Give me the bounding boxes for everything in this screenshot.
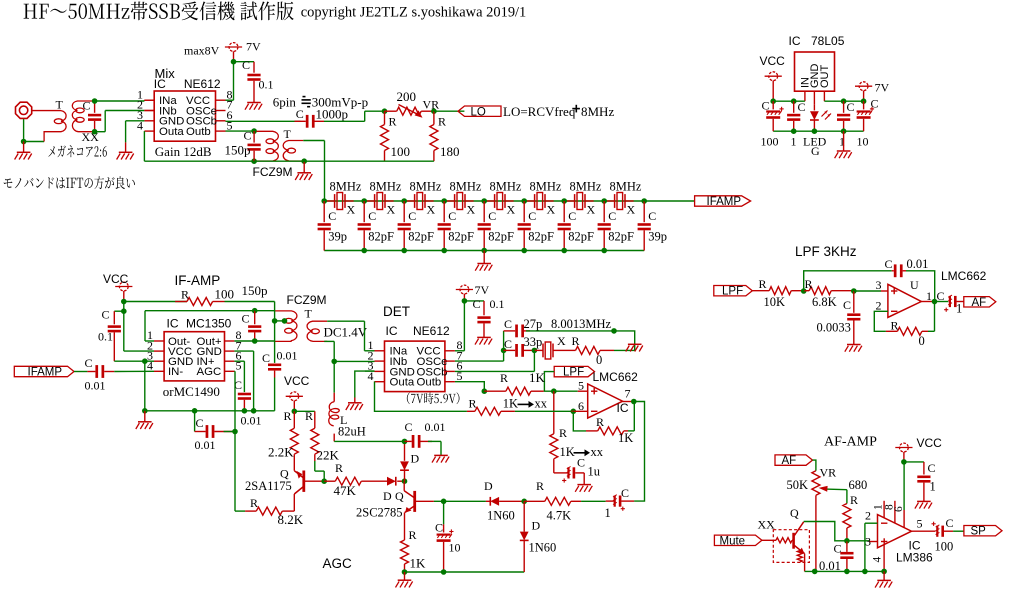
power VCC afamp [900,443,909,452]
svg-text:1u: 1u [588,465,601,479]
svg-text:LO=RCVfreq: LO=RCVfreq [503,104,576,119]
wire pin6 riser 33p [455,370,535,372]
transistor Q3 mute [792,533,795,549]
wire pin8 to if tank [234,340,254,342]
node rail c001 [844,569,850,575]
svg-text:3: 3 [865,534,871,548]
svg-text:150p: 150p [225,143,251,158]
wire vcc to pin2 [123,311,125,351]
svg-text:U: U [910,278,919,292]
capacitor C 1 lpf out [935,301,949,303]
diode D 1N60 first [444,500,486,502]
wire LO node to flag [434,110,465,112]
svg-text:C: C [405,420,413,434]
capacitor C 1000p [306,115,309,128]
svg-text:6pin: 6pin [273,94,297,109]
op IC U2 MC1350 box [164,332,224,381]
svg-text:180: 180 [440,144,460,159]
wire T3 sec bottom to pin2 [326,340,328,342]
flag IFAMP out [695,196,751,206]
svg-text:VCC: VCC [760,54,786,68]
crystal X1 8MHz [334,194,336,208]
ground agc det [434,454,448,456]
node opamp plus2 [551,388,557,394]
svg-text:1: 1 [605,506,611,520]
wire T2 secondary top to filter [303,140,324,142]
svg-text:R: R [335,461,343,475]
wire 7V down [233,51,235,61]
svg-text:C: C [473,297,481,311]
svg-text:IC: IC [154,77,166,91]
crystal X4 8MHz [454,194,456,208]
node agc riser [232,429,238,435]
svg-text:100: 100 [761,135,779,149]
svg-text:C: C [102,308,110,322]
svg-text:IC: IC [167,317,179,331]
transformer T2 FCZ9M primary [256,131,278,161]
resistor R 180 vertical [433,111,435,124]
svg-text:100: 100 [215,287,235,302]
wire crystal filter top rail [324,200,644,202]
transistor Q2 2SC2785 npn [413,491,416,512]
resistor R 100 ifamp [124,301,187,303]
crystal X8 8MHz [614,194,616,208]
node afamp in [844,538,850,544]
svg-text:8.0013MHz: 8.0013MHz [551,317,612,331]
capacitor C filter 1 39p [323,201,325,222]
ground lpf [847,344,861,346]
op-amp U5 LM386 [878,515,912,548]
svg-text:8MHz: 8MHz [490,180,522,194]
svg-text:SP: SP [971,526,987,538]
capacitor C 1 input [793,101,795,113]
diode D 1N60 second [523,501,525,531]
svg-text:4.7K: 4.7K [547,509,572,523]
capacitor C 150p mixer [253,131,255,143]
node Q1 base [321,478,327,484]
node filter bottom 3 [401,248,407,254]
pin stubs 78L05 [804,91,806,101]
svg-text:C: C [834,542,842,556]
capacitor C 10u elec output [863,101,865,109]
svg-text:IFAMP: IFAMP [28,367,63,379]
node osc fb [611,328,617,334]
wire afamp bottom rail [805,570,885,572]
wire tank bottom to pin2 [95,131,106,133]
svg-text:C: C [242,312,250,326]
wire pin7 riser [455,360,504,362]
vr wiper arrow [825,488,847,491]
svg-text:X: X [467,203,476,217]
ground at U1 pin3 [119,151,133,153]
pin stubs U1 [144,99,154,101]
svg-text:C: C [328,209,336,223]
svg-text:C: C [577,456,585,470]
svg-text:Gain 12dB: Gain 12dB [155,144,212,159]
svg-text:AF: AF [972,297,987,309]
node vcc afamp [901,459,907,465]
svg-text:10K: 10K [764,295,786,309]
flag AF out [964,297,996,307]
resistor R 8.2K [235,510,245,512]
svg-text:DET: DET [383,304,410,319]
ground det pin3 [348,402,362,404]
flag SP out [964,526,1002,536]
node det junction [521,499,527,505]
svg-text:39p: 39p [648,230,667,244]
svg-text:2SC2785: 2SC2785 [356,506,403,520]
svg-text:C: C [648,209,656,223]
svg-text:0.01: 0.01 [907,257,929,271]
svg-text:IF-AMP: IF-AMP [175,273,221,288]
svg-text:X: X [547,203,556,217]
capacitor C 100 out [936,526,938,537]
svg-text:82pF: 82pF [448,230,474,244]
node T3 tap a [272,318,278,324]
svg-text:6: 6 [893,506,905,512]
svg-text:3: 3 [876,278,882,292]
capacitor C 1 det out [621,500,634,502]
node filter top 8 [601,198,607,204]
svg-text:X: X [627,203,636,217]
node filter bottom 7 [561,248,567,254]
svg-text:47K: 47K [334,483,357,498]
resistor R 2.2K [293,411,295,428]
svg-text:R: R [469,397,477,411]
node agc filter [192,408,198,414]
svg-text:C: C [946,516,954,530]
svg-text:NE612: NE612 [413,324,450,338]
crystal X6 8MHz [534,194,536,208]
resistor R 100 vertical [384,111,386,124]
svg-text:C: C [368,209,376,223]
svg-text:X: X [427,203,436,217]
label 6pin 300mVp-p [302,96,311,108]
capacitor C 0.01 input [74,371,87,373]
svg-text:C: C [244,129,252,143]
resistor R 0 osc [560,349,576,351]
pot VR wiper arrow [399,105,420,116]
node lpf plus [851,288,857,294]
svg-text:R: R [389,115,397,129]
svg-text:AGC: AGC [323,556,353,571]
svg-text:0.1: 0.1 [259,78,274,92]
node vcc agc [292,409,298,415]
svg-text:VCC: VCC [103,272,129,286]
ground at crystal filter [483,251,485,264]
transformer T1 secondary [72,101,94,132]
svg-text:C: C [242,58,250,72]
svg-text:IN-: IN- [168,366,183,378]
ground under T2 [303,161,305,173]
svg-text:C: C [798,100,806,114]
svg-text:DC1.4V: DC1.4V [324,325,368,340]
wire LPF flag drop [544,372,554,392]
power VCC agc [290,392,299,401]
node antenna-gnd [21,139,27,145]
svg-text:10: 10 [449,541,461,555]
svg-text:G: G [811,144,820,158]
resistor R 4.7K [524,500,545,502]
lm386 top pins 1 8 6 [883,501,885,518]
flag IFAMP in [14,366,74,376]
node filter top 6 [521,198,527,204]
svg-text:max8V: max8V [184,44,220,58]
node opamp plus in [482,388,488,394]
node T3 tap b [282,318,288,324]
svg-text:C: C [843,298,851,312]
wire agc bottom rail [405,571,525,573]
svg-text:2: 2 [865,509,871,523]
svg-text:C: C [448,209,456,223]
svg-text:C: C [408,209,416,223]
wire pin4 Outa down [143,131,145,161]
svg-text:8MHz: 8MHz [570,180,602,194]
wire agc riser pin5 [233,370,236,372]
node vcc ifamp2 [121,308,127,314]
svg-text:C: C [762,99,770,113]
capacitor C 1u elec [554,472,568,474]
node vcc in [770,98,776,104]
resistor R 1K plus [484,390,506,392]
transformer T3 FCZ9M primary [255,310,275,312]
svg-text:1K: 1K [410,556,427,571]
capacitor C 100u elec input [772,101,774,109]
svg-text:33p: 33p [524,335,543,349]
node 7v out [861,98,867,104]
svg-text:200: 200 [397,89,417,104]
wire vcc to pin6 [903,462,905,510]
wire af to vr [813,460,816,471]
node LO left [382,108,388,114]
svg-text:150p: 150p [242,283,268,298]
transformer T3 FCZ9M secondary [307,321,327,341]
node filter top 5 [481,198,487,204]
node filter top 3 [401,198,407,204]
node filter top 7 [561,198,567,204]
svg-text:LMC662: LMC662 [593,370,639,384]
svg-text:0.01: 0.01 [277,349,298,363]
svg-text:R: R [438,115,446,129]
node filter bottom 2 [361,248,367,254]
power 7V at mixer [229,43,238,52]
node 7V junction [231,59,237,65]
svg-text:1N60: 1N60 [529,541,557,555]
svg-text:T: T [284,127,292,141]
transformer T1 megane-core 2:6 primary [44,111,66,142]
node L top [331,359,337,365]
node 7v det [462,298,468,304]
wire pin3 gnd riser [144,360,154,362]
resistor R 1K-xx vertical [553,391,555,434]
svg-text:82pF: 82pF [408,230,434,244]
svg-text:R: R [559,426,567,440]
svg-text:D: D [383,489,392,503]
svg-text:C: C [504,337,512,351]
svg-text:100: 100 [935,540,954,554]
svg-text:8.2K: 8.2K [278,512,304,527]
node rail pin4 [881,569,887,575]
pin stubs U2 [154,340,164,342]
svg-text:8MHz: 8MHz [610,180,642,194]
svg-text:T: T [56,98,64,112]
svg-text:2.2K: 2.2K [268,445,294,460]
capacitor C filter 9 39p [643,201,645,222]
wire antenna ground leg [23,119,25,141]
svg-text:R: R [284,409,292,423]
svg-text:0.01: 0.01 [241,414,262,428]
ground c1 vcc [917,500,931,502]
crystal X7 8MHz [574,194,576,208]
pin stubs U3 [375,350,385,352]
flag AF in [775,455,813,465]
wire pin4 det out [374,380,376,382]
capacitor C filter 4 82pF [443,201,445,222]
potentiometer VR 200 [385,110,397,112]
resistor R 22K [314,411,316,428]
capacitor C 0.01 in+ [238,393,251,396]
node lpf mid [801,288,807,294]
wire 78L05 output rail [824,100,863,102]
svg-text:xx: xx [535,397,548,411]
capacitor C input tank [94,101,96,113]
svg-text:IC: IC [617,401,629,415]
node lpf out [932,299,938,305]
node pin6 gnd [242,408,248,414]
svg-text:C: C [928,461,936,475]
label megane-core 2:6 [48,145,106,157]
svg-text:82pF: 82pF [568,230,594,244]
node Q2 base [441,499,447,505]
node 78L05 gnd2 [812,128,818,134]
svg-text:C: C [871,97,879,111]
svg-text:IFAMP: IFAMP [707,196,742,208]
svg-text:VCC: VCC [284,374,310,388]
svg-text:6.8K: 6.8K [812,295,837,309]
op IC U3 NE612 det box [385,341,445,392]
svg-text:8MHz: 8MHz [330,180,362,194]
wire pin8 to 7V rail [226,99,234,101]
title text HF~50MHz SSB receiver [24,2,294,21]
ground agc [404,572,406,580]
op-amp U3b LMC662 [588,384,623,418]
crystal X3 8MHz [414,194,416,208]
capacitor C 0.1 det bypass [464,300,484,302]
svg-text:C: C [608,209,616,223]
wire lpf feedback rail [804,271,892,291]
svg-text:Q: Q [790,506,799,520]
svg-text:0.1: 0.1 [490,297,505,311]
wire pin3 to ground [126,120,145,122]
wire T3 sec top to pin1 [327,320,364,322]
capacitor C 1 output [843,101,845,113]
svg-text:D: D [411,452,420,466]
power 7V det [460,285,469,294]
node 78L05 gnd1 [791,128,797,134]
svg-text:Q: Q [395,489,404,503]
node rail vr [812,569,818,575]
svg-text:XX: XX [758,518,776,532]
svg-text:7: 7 [625,387,631,401]
wire pin7 riser [234,350,253,352]
capacitor C 10u agc [443,501,445,524]
wire gnd rail ifamp [145,410,275,412]
svg-text:R: R [181,288,189,302]
svg-text:27p: 27p [524,317,543,331]
wire pin3 line [847,540,870,542]
svg-text:LM386: LM386 [896,551,933,565]
svg-text:R: R [572,334,580,348]
svg-text:2: 2 [876,299,882,313]
svg-text:FCZ9M: FCZ9M [253,165,293,179]
svg-text:82uH: 82uH [338,425,366,439]
wire pin5 det to opamp [455,382,484,392]
capacitor C 1 vcc [904,461,924,463]
node agc gnd2 [441,569,447,575]
node filter bottom 4 [441,248,447,254]
wire det opamp out [623,401,634,403]
svg-text:680: 680 [849,478,868,492]
ground osc [628,343,642,345]
svg-text:Mute: Mute [720,535,746,547]
power VCC at IF-AMP [119,282,128,291]
svg-text:1K: 1K [503,397,518,411]
svg-text:R: R [596,415,604,429]
svg-text:8MHz: 8MHz [581,104,614,119]
svg-text:VR: VR [423,97,440,111]
svg-text:1: 1 [956,302,962,316]
node L bottom rail [402,439,408,445]
capacitor C 150p if [254,311,256,325]
svg-text:AF: AF [782,455,797,467]
resistor R 6.8K [809,287,831,295]
capacitor C 0.01 afamp [840,552,853,555]
svg-text:R: R [891,319,899,333]
flag Mute [714,535,762,545]
svg-text:C: C [847,100,855,114]
svg-text:R: R [850,493,858,507]
flag LO [458,106,501,116]
node input tank bottom [92,129,98,135]
svg-text:LMC662: LMC662 [941,269,987,283]
resistor R 1K feedback [573,411,586,431]
ground at antenna [23,142,25,153]
svg-text:5: 5 [227,118,233,132]
svg-text:0.1: 0.1 [98,330,113,344]
node filter top 1 [321,198,327,204]
node det out [631,399,637,405]
capacitor C 0.1 mixer bypass [253,62,255,73]
wire vcc agc rail [294,410,315,412]
ground c1u [577,484,591,486]
svg-text:AF-AMP: AF-AMP [824,435,877,450]
inductor L 82uH [333,361,335,392]
svg-text:R: R [409,528,417,542]
wire T3 tap to vcc riser [275,320,285,322]
svg-text:IC: IC [789,34,801,48]
node filter bottom 8 [601,248,607,254]
svg-text:OUT: OUT [819,65,831,89]
svg-text:NE612: NE612 [184,77,221,91]
antenna connector J1 [16,102,32,118]
svg-text:0: 0 [919,334,925,348]
wire 78L05 input rail [773,100,805,102]
svg-text:LPF 3KHz: LPF 3KHz [795,244,857,259]
svg-text:Outb: Outb [186,126,211,138]
photocoupler inner resistor [797,551,802,563]
capacitor C filter 2 82pF [363,201,365,222]
svg-text:82pF: 82pF [608,230,634,244]
